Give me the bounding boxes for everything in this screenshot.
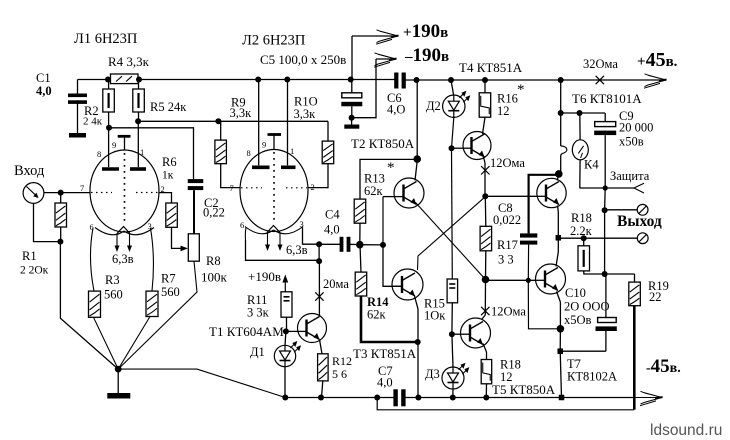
fork Защита — [634, 183, 644, 193]
svg-text:*: * — [517, 82, 525, 98]
svg-text:8: 8 — [97, 149, 101, 159]
tube V2 anode right — [281, 80, 296, 168]
junction C7 left — [374, 395, 380, 401]
junction Выход node1 — [602, 188, 608, 213]
wire R10 to grid2 V2 — [308, 164, 328, 188]
tube V1 cathode arcs — [95, 228, 154, 235]
tube V2 heater — [267, 226, 280, 233]
diagonal T4 emitter node to T3 collector — [418, 197, 486, 270]
measure cross 20ма — [315, 292, 323, 300]
wire x383 down to T3 base — [383, 245, 402, 286]
wire T1 collector line — [318, 261, 320, 313]
junction R5 bottom — [135, 112, 141, 124]
label C10 — [564, 286, 609, 327]
label C9 — [619, 109, 653, 149]
pin 8 V1 — [97, 149, 101, 159]
wire T6 collector riser — [560, 80, 562, 174]
svg-text:20ма: 20ма — [323, 277, 349, 291]
wire T4e to T6 base — [485, 195, 537, 197]
svg-text:2О ООО: 2О ООО — [564, 300, 609, 314]
junction bottom rail right — [559, 395, 565, 401]
wire R18b to rail — [485, 384, 487, 398]
junction C4 left top — [316, 241, 322, 247]
svg-text:ldsound.ru: ldsound.ru — [650, 422, 722, 439]
wire R18a bottom — [584, 271, 605, 274]
wire R2 to C2 — [109, 128, 194, 179]
wire T5 collector — [482, 280, 486, 320]
junction R18a top — [581, 235, 587, 241]
pin 3 V2 — [300, 219, 304, 229]
wire R15 to T5 base — [452, 333, 460, 335]
label 6,3в V1 — [112, 252, 134, 266]
wire T2 base — [383, 197, 394, 245]
junction T1 base — [283, 328, 289, 334]
svg-text:62к: 62к — [367, 308, 387, 322]
wire cathode3 to R7 — [151, 228, 154, 291]
pin 1 V1 — [140, 147, 144, 157]
diagonal T2 emitter to T7 base node — [416, 203, 486, 280]
measure cross 120ма bottom — [481, 307, 489, 315]
wire T3 emitter down — [415, 296, 419, 398]
potentiometer R8 — [188, 234, 199, 261]
label 20ма — [323, 277, 349, 291]
label Т3 КТ851А — [353, 346, 417, 361]
label +190в lower — [248, 269, 281, 284]
pin 1 V2 — [290, 146, 294, 156]
junction R14/T3emitter — [415, 339, 421, 345]
svg-text:2 2Ок: 2 2Ок — [20, 265, 49, 277]
svg-text:C10: C10 — [565, 286, 586, 300]
pin 3 V1 — [148, 221, 152, 231]
label R12 56 — [332, 354, 352, 368]
label R18 12 — [500, 358, 521, 385]
diode D2 — [443, 80, 471, 117]
svg-text:Выход: Выход — [617, 213, 662, 230]
svg-text:R6: R6 — [162, 155, 177, 169]
label 6,3в V2 — [286, 243, 308, 257]
svg-text:8: 8 — [247, 148, 251, 158]
label 320ма — [583, 57, 618, 71]
label -190в — [404, 45, 449, 66]
svg-text:9: 9 — [112, 140, 116, 150]
wire -190v riser — [352, 59, 376, 118]
junction rail/R2 — [105, 77, 111, 83]
wire out line2 — [558, 237, 637, 239]
wire R12 to rail — [322, 381, 323, 398]
label C7 4,0 — [377, 364, 393, 390]
svg-text:Т1 КТ604АМ: Т1 КТ604АМ — [209, 324, 284, 339]
junction T4 base — [449, 145, 455, 151]
wire C2 to R8 — [193, 190, 195, 234]
label R13 asterisk — [387, 160, 395, 176]
svg-text:R5 24к: R5 24к — [150, 100, 187, 114]
tube V1 heater — [117, 227, 130, 234]
wire T6 collector lead — [557, 175, 559, 181]
wire base junction — [286, 330, 298, 332]
svg-text:12Ома: 12Ома — [490, 156, 525, 170]
svg-text:6,3в: 6,3в — [112, 252, 134, 266]
label R10 3,3к — [294, 95, 318, 122]
resistor R13 — [354, 199, 366, 223]
label R11 33к — [247, 293, 270, 320]
pin 2 V2 — [311, 182, 315, 192]
capacitor C10 — [596, 274, 617, 351]
label R8 100к — [201, 254, 228, 285]
junction K4 top — [577, 110, 583, 116]
wire T4 emitter — [484, 157, 486, 196]
tube V1 grid right dotted — [136, 192, 158, 194]
label К4 — [584, 158, 599, 172]
junction C8 bottom lead — [526, 278, 531, 283]
resistor R18b — [481, 360, 492, 384]
wire R14 node — [360, 245, 361, 272]
wire +190v top rail — [78, 79, 667, 82]
wire T7 collector — [556, 238, 558, 266]
resistor R5 — [133, 80, 145, 113]
label Защита — [610, 169, 650, 183]
tube V1 anode right — [130, 121, 146, 169]
resistor R10 — [322, 121, 334, 163]
label Выход — [617, 213, 662, 230]
svg-text:Д1: Д1 — [250, 345, 265, 359]
label Л2 6Н23П — [242, 33, 306, 49]
arrow -190в — [374, 53, 397, 67]
wire down to C10 node — [559, 329, 561, 351]
label C2 0,22 — [203, 196, 225, 220]
label Д1 — [250, 345, 265, 359]
label R15 10к — [424, 297, 446, 323]
svg-text:560: 560 — [161, 285, 180, 299]
wire T2 col to R13 — [360, 159, 417, 199]
resistor R9 — [215, 121, 227, 163]
pin 2 V1 — [161, 184, 165, 194]
label C1 4,0 — [36, 71, 52, 98]
svg-text:R17: R17 — [497, 238, 518, 252]
label C4 4,0 — [324, 208, 340, 237]
svg-text:–190в: –190в — [404, 45, 449, 66]
svg-text:C1: C1 — [36, 71, 51, 85]
wire to bottom rail — [560, 351, 561, 397]
capacitor C9 — [594, 113, 616, 188]
wire R5 to R9/R10 rail — [138, 120, 328, 122]
svg-text:R3: R3 — [105, 273, 120, 287]
tube V2 cathode arcs — [245, 227, 303, 234]
label R14 62к — [367, 295, 389, 322]
junction rail/R5 — [136, 77, 142, 83]
tube V1 envelope — [90, 150, 159, 232]
wire C8 lead down — [528, 280, 560, 329]
junction rail/T6 — [558, 77, 564, 83]
svg-text:Д3: Д3 — [425, 367, 440, 381]
svg-text:32Ома: 32Ома — [583, 57, 618, 71]
resistor R12 — [318, 354, 329, 381]
label R7 560 — [161, 272, 180, 300]
label Д2 — [426, 99, 441, 113]
bottom rail -45 feed — [377, 398, 634, 410]
svg-text:6: 6 — [240, 220, 244, 230]
svg-text:Т6 КТ8101А: Т6 КТ8101А — [572, 91, 642, 106]
transistor T7 — [535, 264, 566, 294]
tube V2 divider dotted — [273, 152, 275, 221]
resistor R2 — [103, 80, 115, 113]
svg-text:Вход: Вход — [14, 163, 45, 179]
svg-text:100к: 100к — [201, 270, 228, 285]
label Т6 КТ8101А — [572, 91, 642, 106]
tube V2 heater leads — [265, 233, 283, 252]
wire to out terminal1 — [605, 209, 638, 211]
wire T5 emitter — [483, 344, 487, 360]
wire T4 collector — [483, 117, 486, 134]
transistor T2 — [394, 178, 425, 208]
tube V2 grid right dotted — [286, 187, 307, 189]
label R13 62к — [364, 172, 385, 199]
junction rail/+190 feed — [348, 77, 354, 83]
tube V1 top cap pin9 — [118, 136, 131, 150]
diode D3 — [442, 334, 469, 397]
junction C5 bottom — [349, 115, 355, 121]
svg-text:КТ8102А: КТ8102А — [567, 370, 617, 384]
junction R12 bottom — [318, 395, 324, 401]
resistor R7 — [146, 291, 158, 316]
label 120ма bottom — [491, 305, 526, 319]
resistor R6 — [166, 203, 178, 227]
transistor T4 — [463, 132, 492, 160]
junction T6 node — [558, 110, 564, 116]
junction rail/anode L2 right — [284, 77, 290, 83]
svg-text:0,022: 0,022 — [493, 213, 521, 227]
capacitor C6 — [394, 73, 406, 89]
ground under C1 — [69, 133, 86, 138]
wire R11 to T1 base — [286, 317, 288, 331]
svg-text:20 000: 20 000 — [619, 121, 653, 135]
junction rail/anode L2 left — [255, 77, 261, 83]
label Т1 КТ604АМ — [209, 324, 284, 339]
terminal Выход 2 — [637, 233, 648, 244]
tube V2 top cap pin9 — [268, 135, 282, 150]
label +45в — [637, 49, 678, 71]
tube V1 divider dotted — [124, 153, 126, 222]
svg-text:R8: R8 — [206, 254, 221, 268]
svg-text:Т4 КТ851А: Т4 КТ851А — [459, 60, 523, 75]
svg-text:R4 3,3к: R4 3,3к — [108, 54, 150, 69]
pin 7 V1 — [80, 183, 84, 193]
wire R7 to ground — [118, 317, 150, 370]
wire D2 to T4 base — [452, 117, 454, 148]
svg-text:560: 560 — [104, 288, 123, 302]
ground symbol — [107, 369, 130, 398]
label R4 3,3к — [108, 54, 150, 69]
wire R1 to ground — [60, 242, 118, 370]
svg-text:Защита: Защита — [610, 169, 650, 183]
pin 7 V2 — [230, 183, 234, 193]
transistor T1 — [297, 314, 327, 343]
svg-text:C5 100,0 x 250в: C5 100,0 x 250в — [260, 52, 346, 67]
svg-text:2.2к: 2.2к — [570, 224, 593, 238]
label Вход — [14, 163, 45, 179]
wire T6 emitter — [557, 206, 560, 238]
junction T6 collector — [555, 170, 563, 178]
svg-text:12Ома: 12Ома — [491, 305, 526, 319]
junction R15 bottom — [449, 303, 455, 337]
svg-text:22: 22 — [649, 290, 662, 304]
capacitor C2 — [188, 179, 204, 190]
wire to R19 — [605, 274, 635, 282]
svg-text:7: 7 — [80, 183, 84, 193]
resistor R11 — [281, 292, 292, 317]
pin 6 V1 — [90, 222, 94, 232]
svg-text:0,22: 0,22 — [203, 206, 225, 220]
svg-text:7: 7 — [230, 183, 234, 193]
junction rail/D2 — [448, 77, 454, 83]
wire C8 bottom — [527, 245, 529, 281]
wire node to x383 — [360, 244, 383, 246]
bottom rail main — [285, 397, 634, 399]
wire node to T7 base — [486, 279, 536, 281]
label C6 4,0 — [387, 91, 405, 117]
ground node — [115, 366, 122, 373]
label R5 24к — [150, 100, 187, 114]
wire C8 top thick — [529, 175, 559, 234]
pin 9 V1 — [112, 140, 116, 150]
wire cathode6 V2 down — [245, 228, 319, 261]
label R6 1к — [162, 155, 177, 182]
svg-text:3 3к: 3 3к — [247, 306, 270, 320]
measure cross 320ма — [596, 76, 604, 84]
svg-text:+190в: +190в — [403, 21, 448, 42]
svg-text:1к: 1к — [162, 170, 174, 182]
label 56 value — [332, 367, 347, 381]
svg-text:Т5 КТ850А: Т5 КТ850А — [492, 382, 556, 397]
svg-text:6,3в: 6,3в — [286, 243, 308, 257]
junction C4 left bottom — [316, 258, 322, 264]
junction node 274 — [602, 210, 608, 277]
capacitor C1 — [68, 80, 87, 134]
svg-text:62к: 62к — [364, 184, 384, 198]
wire y113 — [561, 112, 605, 114]
wire T1 emitter to R12 — [320, 340, 323, 354]
capacitor C4 — [321, 237, 356, 252]
wire T7 emitter — [557, 292, 561, 329]
tube V2 grid left dotted — [241, 187, 262, 189]
svg-text:4,0: 4,0 — [324, 223, 340, 237]
wire T1 collector — [318, 313, 320, 317]
label Т5 КТ850А — [492, 382, 556, 397]
junction T4 emitter node — [482, 193, 488, 199]
wire R3 to ground — [94, 317, 119, 369]
junction T6 emitter node — [556, 235, 562, 241]
label C5 100,0 x 250в — [260, 52, 346, 67]
junction C10 bottom node — [557, 348, 605, 354]
wire R9 to grid7 V2 — [221, 164, 241, 188]
tube V2 anode left — [252, 80, 270, 168]
wire grid2 to R6 — [159, 193, 172, 203]
label Т2 КТ850А — [351, 136, 415, 151]
svg-text:9: 9 — [262, 140, 266, 150]
svg-text:3 3: 3 3 — [498, 253, 514, 267]
wire R13 to node — [359, 223, 361, 245]
svg-text:Т3 КТ851А: Т3 КТ851А — [353, 346, 417, 361]
svg-text:Л2 6Н23П: Л2 6Н23П — [242, 33, 306, 49]
junction D3 bottom — [450, 395, 456, 401]
svg-text:К4: К4 — [584, 158, 599, 172]
svg-text:3,3к: 3,3к — [230, 106, 253, 120]
svg-text:Д2: Д2 — [426, 99, 441, 113]
label Д3 — [425, 367, 440, 381]
label R2 24к — [83, 104, 103, 128]
junction rail/R16 — [482, 77, 488, 83]
wire protect — [580, 187, 635, 189]
svg-text:4,О: 4,О — [387, 103, 405, 117]
input connector X1 — [23, 183, 44, 204]
tube V1 anode left — [102, 128, 119, 169]
svg-text:х50в: х50в — [619, 135, 644, 149]
label R16 12 — [497, 82, 525, 118]
resistor R19 — [629, 282, 641, 306]
wire R8 to ground — [118, 261, 197, 369]
arrow +45в — [644, 74, 667, 88]
wire T2 collector lead — [415, 161, 417, 181]
svg-text:12: 12 — [497, 104, 510, 118]
junction T7 base node — [482, 276, 490, 284]
wire cathode6 to R3 — [90, 228, 94, 291]
svg-text:2 4к: 2 4к — [83, 116, 103, 128]
label R9 3,3к — [230, 96, 253, 121]
junction T2 collector — [413, 155, 421, 163]
pin 6 V2 — [240, 220, 244, 230]
resistor R4 — [111, 74, 139, 84]
svg-text:+190в: +190в — [248, 269, 281, 284]
pin 9 V2 — [262, 140, 266, 150]
label R18 2.2к — [570, 211, 593, 238]
diode D1 — [274, 331, 301, 397]
svg-text:R18: R18 — [571, 211, 592, 225]
pin 8 V2 — [247, 148, 251, 158]
capacitor C7 — [393, 389, 405, 406]
relay K4 — [572, 113, 588, 188]
wire ground to bottom rail — [118, 369, 285, 397]
transistor T5 — [460, 318, 491, 348]
label -45в — [646, 356, 681, 377]
wire input to grid — [44, 192, 90, 194]
wire input shell — [34, 203, 61, 241]
wire T4 base — [452, 147, 464, 149]
svg-text:Т2 КТ850А: Т2 КТ850А — [351, 136, 415, 151]
resistor R16 — [479, 80, 491, 117]
label R17 33 — [497, 238, 518, 267]
svg-text:R7: R7 — [161, 272, 176, 286]
capacitor C8 — [520, 233, 537, 244]
junction base node x383 — [380, 242, 386, 248]
wire cathode3 V2 to C4 — [303, 228, 320, 245]
wire C6 to T2 collector — [416, 80, 418, 159]
svg-text:Л1 6Н23П: Л1 6Н23П — [74, 31, 138, 47]
terminal Выход 1 — [637, 204, 648, 215]
junction C6 right — [414, 77, 420, 83]
resistor R14 — [355, 272, 367, 296]
resistor R3 — [89, 291, 101, 317]
label Т7 КТ8102А — [567, 357, 617, 384]
svg-text:1: 1 — [140, 147, 144, 157]
svg-text:4,0: 4,0 — [36, 84, 52, 98]
junction R1 bottom — [57, 227, 63, 245]
label 120ма top — [490, 156, 525, 170]
junction R18b bottom — [483, 395, 489, 401]
tube V2 envelope — [240, 150, 308, 232]
junction input/R1 — [58, 190, 64, 196]
svg-text:R1: R1 — [22, 249, 37, 263]
transistor T6 — [536, 178, 566, 207]
svg-text:3,3к: 3,3к — [294, 107, 317, 121]
